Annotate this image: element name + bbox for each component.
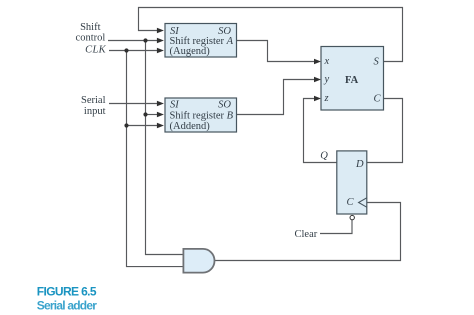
svg-text:control: control xyxy=(76,32,106,43)
flip-flop clock edge wedge xyxy=(359,198,367,208)
junction dot: CLK / register B xyxy=(124,123,128,127)
svg-text:(Addend): (Addend) xyxy=(170,121,211,132)
arrowhead: FA z input xyxy=(314,96,321,102)
wire: shift-control vertical drop to AND gate xyxy=(146,41,184,255)
wire: CLK to register A xyxy=(109,50,159,52)
arrowhead: register A shift input xyxy=(157,38,164,44)
wire: Shift control to register A xyxy=(108,40,159,42)
arrowhead: register A SI input xyxy=(157,28,164,34)
arrowhead: register A clock input xyxy=(157,48,164,54)
svg-text:Serial: Serial xyxy=(81,95,106,106)
svg-text:input: input xyxy=(84,106,106,117)
svg-text:C: C xyxy=(374,94,382,105)
wire: FA C output to D input of flip-flop xyxy=(367,99,403,163)
svg-text:SI: SI xyxy=(170,99,179,110)
svg-text:FA: FA xyxy=(345,75,359,86)
svg-text:SO: SO xyxy=(218,26,231,37)
flip-flop clear bubble xyxy=(350,215,354,219)
wire: Q output of flip-flop to FA z input xyxy=(304,99,338,163)
svg-text:SO: SO xyxy=(218,99,231,110)
svg-text:FIGURE 6.5: FIGURE 6.5 xyxy=(37,284,97,298)
junction dot: shift control / register B xyxy=(143,112,147,116)
svg-text:C: C xyxy=(347,197,355,208)
junction dot: CLK / register A xyxy=(124,48,128,52)
wire: S feedback (FA S output to SI of register A) xyxy=(139,8,403,62)
svg-text:Q: Q xyxy=(320,150,328,161)
wire: Serial input to register B SI xyxy=(109,103,159,105)
svg-text:D: D xyxy=(355,159,364,170)
svg-text:z: z xyxy=(324,93,329,104)
wire: SO of register B to FA y input xyxy=(237,80,316,115)
wire: CLK vertical drop to AND gate xyxy=(127,51,184,267)
svg-text:y: y xyxy=(324,74,330,85)
D flip-flop box xyxy=(337,151,367,214)
arrowhead: register B SI input xyxy=(157,101,164,107)
svg-text:Serial adder: Serial adder xyxy=(37,298,97,312)
wire: CLK branch to register B xyxy=(127,125,160,127)
shift register A box xyxy=(165,24,237,58)
wire: Clear to flip-flop bubble xyxy=(320,220,352,234)
svg-text:Clear: Clear xyxy=(295,229,318,240)
svg-text:SI: SI xyxy=(170,26,179,37)
svg-text:S: S xyxy=(374,57,380,68)
arrowhead: FA x input xyxy=(314,59,321,65)
svg-text:(Augend): (Augend) xyxy=(170,46,211,57)
junction dot: shift control / register A xyxy=(143,38,147,42)
wire: AND gate output to flip-flop clock input xyxy=(214,203,400,261)
arrowhead: register B shift input xyxy=(157,112,164,118)
arrowhead: FA y input xyxy=(314,77,321,83)
wire: SO of register A to FA x input xyxy=(237,41,316,62)
shift register B box xyxy=(165,98,237,132)
AND gate xyxy=(183,249,214,273)
svg-text:CLK: CLK xyxy=(85,44,107,55)
svg-text:x: x xyxy=(324,56,330,67)
arrowhead: register B clock input xyxy=(157,123,164,129)
wire: shift-control branch to register B xyxy=(146,114,160,116)
full adder FA box xyxy=(321,47,384,111)
